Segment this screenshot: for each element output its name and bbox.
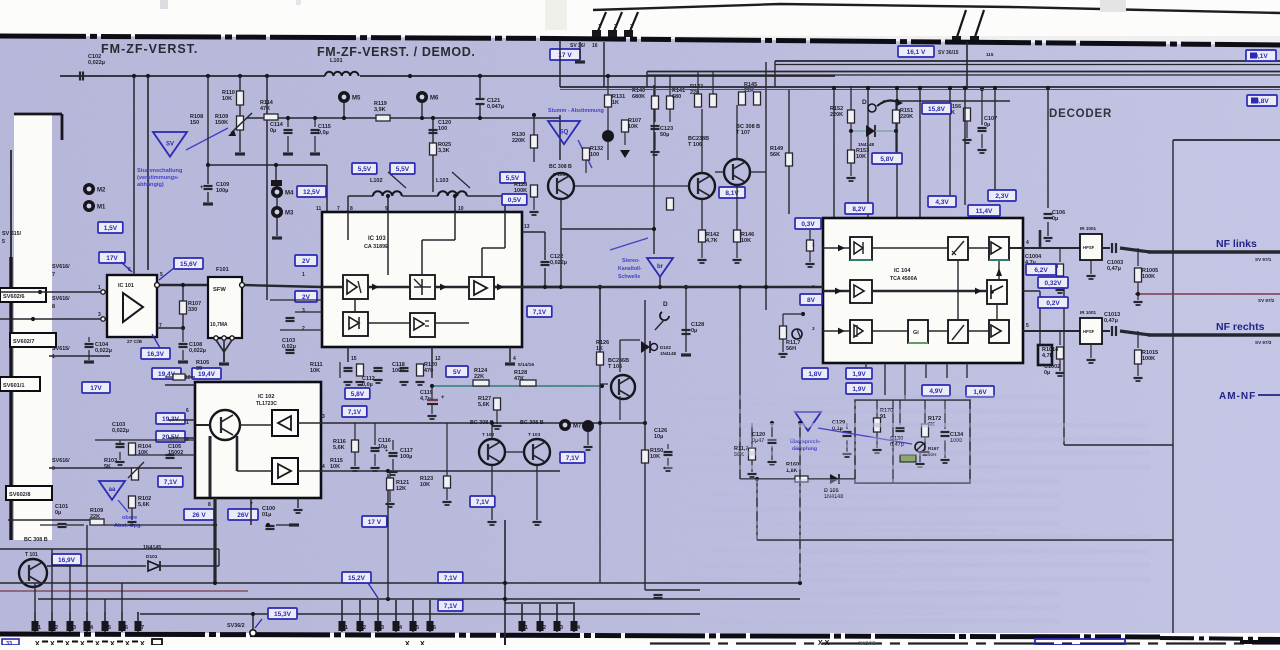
svg-text:220K: 220K — [900, 114, 913, 120]
svg-text:7: 7 — [141, 625, 144, 631]
svg-text:Stummschaltung: Stummschaltung — [137, 168, 183, 174]
svg-text:C120: C120 — [438, 120, 451, 126]
svg-text:15: 15 — [351, 356, 357, 362]
svg-text:R108: R108 — [190, 114, 203, 120]
svg-text:R146: R146 — [741, 232, 754, 238]
svg-text:1,9V: 1,9V — [852, 386, 866, 393]
svg-text:7,1V: 7,1V — [476, 499, 490, 506]
svg-text:0,022µ: 0,022µ — [95, 348, 112, 354]
svg-text:10K: 10K — [138, 450, 148, 456]
svg-text:R132: R132 — [590, 146, 603, 152]
svg-text:D102: D102 — [660, 345, 671, 350]
svg-text:7,1V: 7,1V — [348, 409, 362, 416]
svg-text:SV601/1: SV601/1 — [3, 383, 24, 389]
svg-text:2,3V: 2,3V — [995, 193, 1009, 200]
svg-text:01µ: 01µ — [262, 512, 271, 518]
svg-text:C116: C116 — [378, 438, 391, 444]
svg-text:1: 1 — [38, 625, 41, 631]
svg-text:D: D — [663, 301, 668, 308]
svg-text:(verstimmungs-: (verstimmungs- — [137, 175, 179, 181]
svg-text:26 V: 26 V — [192, 512, 206, 519]
svg-text:10: 10 — [185, 375, 191, 381]
svg-text:6: 6 — [186, 408, 189, 414]
svg-text:F101: F101 — [216, 267, 229, 273]
svg-text:HPSF: HPSF — [1083, 245, 1095, 250]
svg-text:IR 1001: IR 1001 — [1080, 310, 1097, 315]
svg-text:T 101: T 101 — [25, 552, 38, 558]
svg-text:R1015: R1015 — [1142, 350, 1158, 356]
svg-text:3: 3 — [322, 414, 325, 420]
svg-text:R120: R120 — [424, 362, 437, 368]
svg-text:X: X — [110, 641, 115, 645]
svg-text:4,9V: 4,9V — [929, 388, 943, 395]
svg-text:4,3V: 4,3V — [935, 199, 949, 206]
svg-text:X X: X X — [818, 640, 830, 645]
svg-text:M1: M1 — [97, 205, 106, 211]
svg-text:R172: R172 — [928, 416, 941, 422]
svg-text:13: 13 — [524, 224, 530, 230]
svg-text:1,8V: 1,8V — [808, 371, 822, 378]
svg-text:680K: 680K — [632, 94, 645, 100]
svg-text:5,8V: 5,8V — [880, 156, 894, 163]
svg-text:R128: R128 — [514, 370, 527, 376]
svg-text:C1003: C1003 — [1107, 260, 1123, 266]
svg-text:SV616/: SV616/ — [52, 296, 70, 302]
svg-text:C100: C100 — [262, 506, 275, 512]
svg-text:0µ: 0µ — [270, 128, 276, 134]
svg-text:C1013: C1013 — [1104, 312, 1120, 318]
svg-text:470: 470 — [424, 368, 433, 374]
svg-text:2: 2 — [812, 284, 815, 289]
svg-text:100K: 100K — [1142, 274, 1155, 280]
svg-text:M7: M7 — [573, 424, 582, 430]
svg-text:SV602/6: SV602/6 — [3, 294, 24, 300]
svg-text:T 104: T 104 — [553, 172, 566, 178]
svg-text:Gi: Gi — [913, 330, 919, 336]
svg-text:R119: R119 — [374, 101, 387, 107]
svg-text:4,7K: 4,7K — [1042, 353, 1054, 359]
svg-text:C103: C103 — [112, 422, 125, 428]
svg-text:C115: C115 — [318, 124, 331, 130]
svg-text:C106: C106 — [1052, 210, 1065, 216]
svg-text:11,4V: 11,4V — [976, 208, 993, 215]
svg-text:7,1V: 7,1V — [444, 603, 458, 610]
svg-text:R128: R128 — [514, 182, 527, 188]
svg-text:1: 1 — [598, 24, 601, 30]
svg-text:R150: R150 — [650, 448, 663, 454]
svg-text:16,3V: 16,3V — [147, 351, 165, 358]
svg-text:33: 33 — [6, 641, 12, 645]
svg-text:R116: R116 — [333, 439, 346, 445]
svg-text:10K: 10K — [628, 124, 638, 130]
svg-text:4: 4 — [1026, 240, 1029, 246]
svg-text:D: D — [862, 99, 867, 106]
svg-text:R126: R126 — [596, 340, 609, 346]
svg-text:0,32V: 0,32V — [1045, 280, 1063, 287]
svg-text:BC 308 B: BC 308 B — [736, 124, 760, 130]
svg-text:220K: 220K — [830, 112, 843, 118]
svg-text:56K: 56K — [770, 152, 780, 158]
svg-text:X: X — [420, 641, 425, 645]
svg-text:R1005: R1005 — [1142, 268, 1158, 274]
svg-text:BC238B: BC238B — [688, 136, 709, 142]
svg-text:R140: R140 — [632, 88, 645, 94]
svg-text:15002: 15002 — [168, 450, 183, 456]
svg-text:C128: C128 — [691, 322, 704, 328]
svg-text:1: 1 — [186, 420, 189, 426]
svg-text:5/14/16: 5/14/16 — [518, 362, 534, 368]
svg-text:R127: R127 — [478, 396, 491, 402]
svg-text:0,0µ: 0,0µ — [318, 130, 329, 136]
svg-text:R105: R105 — [196, 360, 209, 366]
svg-text:5,5V: 5,5V — [396, 166, 410, 173]
svg-text:T 107: T 107 — [736, 130, 750, 136]
svg-text:C119: C119 — [420, 390, 433, 396]
svg-text:100K: 100K — [1142, 356, 1155, 362]
svg-text:0µ: 0µ — [691, 328, 697, 334]
svg-text:+: + — [200, 185, 204, 191]
svg-text:+: + — [441, 395, 445, 401]
svg-text:C121: C121 — [487, 98, 500, 104]
svg-text:L103: L103 — [436, 178, 449, 184]
svg-text:R109: R109 — [215, 114, 228, 120]
svg-text:SV616/: SV616/ — [52, 458, 70, 464]
svg-text:5: 5 — [2, 239, 5, 245]
svg-text:19,4V: 19,4V — [198, 371, 216, 378]
svg-text:10K: 10K — [330, 464, 340, 470]
svg-text:T 102: T 102 — [482, 432, 495, 438]
svg-text:C117: C117 — [400, 448, 413, 454]
svg-text:+: + — [385, 448, 388, 454]
svg-text:3: 3 — [381, 625, 384, 631]
svg-text:obere: obere — [122, 515, 137, 521]
svg-text:15,3V: 15,3V — [274, 611, 292, 618]
svg-text:T 103: T 103 — [528, 432, 541, 438]
svg-text:3: 3 — [630, 24, 633, 30]
svg-text:C114: C114 — [270, 122, 284, 128]
svg-text:M5: M5 — [352, 96, 361, 102]
svg-text:10K: 10K — [650, 454, 660, 460]
svg-text:0,47µ: 0,47µ — [1107, 266, 1121, 272]
svg-text:10µ: 10µ — [654, 434, 663, 440]
svg-text:39: 39 — [196, 366, 202, 372]
svg-text:R121: R121 — [396, 480, 409, 486]
svg-text:0,022µ: 0,022µ — [88, 60, 105, 66]
svg-text:50µ: 50µ — [660, 132, 669, 138]
svg-text:R1014: R1014 — [1042, 347, 1059, 353]
svg-text:5V: 5V — [453, 369, 462, 376]
svg-text:6,2V: 6,2V — [1034, 267, 1048, 274]
svg-text:1: 1 — [52, 354, 55, 360]
svg-text:0,02µ: 0,02µ — [282, 344, 296, 350]
svg-text:C101: C101 — [55, 504, 68, 510]
svg-text:10K: 10K — [222, 96, 232, 102]
svg-text:R153: R153 — [856, 148, 869, 154]
svg-text:5: 5 — [416, 625, 419, 631]
svg-text:C104: C104 — [95, 342, 109, 348]
svg-text:X: X — [65, 641, 70, 645]
svg-text:SV615/: SV615/ — [52, 346, 70, 352]
svg-text:M6: M6 — [430, 96, 439, 102]
svg-text:2: 2 — [302, 326, 305, 332]
svg-text:0,022µ: 0,022µ — [112, 428, 129, 434]
svg-text:Abst.-Spg.: Abst.-Spg. — [114, 523, 142, 529]
svg-text:115: 115 — [986, 52, 994, 57]
svg-text:SV 97/1: SV 97/1 — [1255, 257, 1272, 262]
svg-text:C1004: C1004 — [1025, 254, 1042, 260]
svg-text:0,3V: 0,3V — [801, 221, 815, 228]
svg-text:R167: R167 — [928, 446, 939, 451]
svg-text:100: 100 — [590, 152, 599, 158]
svg-text:3,9K: 3,9K — [374, 107, 386, 113]
svg-text:0,5V: 0,5V — [508, 197, 522, 204]
svg-text:15,6V: 15,6V — [180, 261, 198, 268]
svg-text:3: 3 — [73, 625, 76, 631]
svg-text:X: X — [405, 641, 410, 645]
svg-text:2V: 2V — [302, 258, 311, 265]
svg-text:0µ: 0µ — [1052, 216, 1058, 222]
svg-text:150: 150 — [190, 120, 199, 126]
svg-text:R109: R109 — [90, 508, 103, 514]
svg-text:10K: 10K — [420, 482, 430, 488]
svg-text:17 V: 17 V — [368, 519, 382, 526]
svg-text:DECODER: DECODER — [1049, 108, 1112, 120]
svg-text:R103: R103 — [104, 458, 117, 464]
svg-text:1: 1 — [812, 242, 815, 247]
svg-text:HPSF: HPSF — [1083, 329, 1095, 334]
svg-text:зидов: зидов — [858, 641, 876, 645]
svg-text:R141: R141 — [672, 88, 685, 94]
svg-text:1: 1 — [345, 625, 348, 631]
svg-text:IR 1001: IR 1001 — [1080, 226, 1097, 231]
svg-text:6: 6 — [125, 625, 128, 631]
svg-text:CA 3189E: CA 3189E — [364, 244, 389, 250]
svg-text:X: X — [95, 641, 100, 645]
svg-text:C103: C103 — [282, 338, 295, 344]
svg-text:C105: C105 — [168, 444, 181, 450]
svg-text:1N4148: 1N4148 — [660, 351, 677, 356]
svg-text:47K: 47K — [514, 376, 524, 382]
svg-text:4: 4 — [513, 356, 516, 362]
svg-text:1: 1 — [302, 272, 305, 278]
svg-text:100K: 100K — [514, 188, 527, 194]
svg-text:R025: R025 — [438, 142, 451, 148]
svg-text:100: 100 — [438, 126, 447, 132]
svg-text:NF rechts: NF rechts — [1216, 321, 1265, 333]
svg-text:R107: R107 — [188, 301, 201, 307]
svg-text:Stumm - Abstimmung: Stumm - Abstimmung — [548, 108, 604, 114]
svg-text:X: X — [80, 641, 85, 645]
svg-text:SV 36/15: SV 36/15 — [938, 50, 959, 56]
svg-text:17V: 17V — [90, 385, 102, 392]
svg-text:17V: 17V — [106, 255, 118, 262]
svg-text:SFW: SFW — [213, 287, 226, 293]
svg-text:C102: C102 — [88, 54, 101, 60]
svg-text:1K: 1K — [612, 100, 619, 106]
svg-text:R110: R110 — [222, 90, 235, 96]
svg-text:26V: 26V — [237, 512, 249, 519]
svg-text:BC 308 B: BC 308 B — [549, 164, 572, 170]
svg-text:9: 9 — [52, 466, 55, 472]
svg-text:3,3K: 3,3K — [438, 148, 450, 154]
svg-text:C109: C109 — [216, 182, 229, 188]
svg-text:SV602/8: SV602/8 — [9, 492, 30, 498]
svg-text:10K: 10K — [741, 238, 751, 244]
svg-text:27 C/B: 27 C/B — [127, 339, 142, 345]
svg-text:100µ: 100µ — [400, 454, 412, 460]
svg-text:22K: 22K — [474, 374, 484, 380]
svg-text:X: X — [125, 641, 130, 645]
svg-text:SV 36/: SV 36/ — [570, 43, 586, 49]
svg-text:SV: SV — [166, 141, 174, 147]
svg-text:5,6K: 5,6K — [138, 502, 150, 508]
svg-text:Schwelle: Schwelle — [618, 274, 640, 280]
svg-text:150K: 150K — [215, 120, 228, 126]
svg-text:4: 4 — [322, 464, 325, 470]
svg-text:2: 2 — [543, 625, 546, 631]
svg-text:SV 615/: SV 615/ — [2, 231, 22, 237]
svg-text:10,7MA: 10,7MA — [210, 322, 228, 328]
svg-text:22K: 22K — [90, 514, 100, 520]
svg-text:R114: R114 — [260, 100, 274, 106]
svg-text:R131: R131 — [612, 94, 625, 100]
svg-text:0,47µ: 0,47µ — [1104, 318, 1118, 324]
svg-text:3: 3 — [560, 625, 563, 631]
svg-text:X: X — [35, 641, 40, 645]
svg-text:abhängig): abhängig) — [137, 182, 164, 188]
svg-text:220K: 220K — [512, 138, 525, 144]
svg-text:0,2V: 0,2V — [1046, 300, 1060, 307]
svg-text:M2: M2 — [97, 188, 106, 194]
svg-text:7,1V: 7,1V — [533, 309, 547, 316]
svg-text:7,1V: 7,1V — [566, 455, 580, 462]
svg-text:0µ: 0µ — [55, 510, 61, 516]
svg-text:NF links: NF links — [1216, 238, 1257, 250]
svg-text:8: 8 — [208, 502, 211, 508]
svg-text:5,8V: 5,8V — [351, 391, 365, 398]
svg-text:0,022µ: 0,022µ — [189, 348, 206, 354]
svg-text:2: 2 — [614, 24, 617, 30]
svg-text:C108: C108 — [189, 342, 202, 348]
svg-text:10K: 10K — [856, 154, 866, 160]
svg-text:16,1 V: 16,1 V — [907, 49, 926, 56]
svg-text:6: 6 — [433, 625, 436, 631]
svg-text:M4: M4 — [285, 191, 294, 197]
svg-text:M3: M3 — [285, 211, 294, 217]
svg-text:C126: C126 — [654, 428, 667, 434]
svg-text:5,6K: 5,6K — [333, 445, 345, 451]
svg-text:R123: R123 — [420, 476, 433, 482]
svg-text:D101: D101 — [146, 554, 158, 560]
svg-text:TCA 4500A: TCA 4500A — [890, 276, 917, 282]
svg-text:0,022µ: 0,022µ — [550, 260, 567, 266]
svg-text:BC 308 B: BC 308 B — [520, 420, 544, 426]
svg-text:16,9V: 16,9V — [58, 557, 76, 564]
svg-text:SV602/7: SV602/7 — [13, 339, 34, 345]
svg-text:R151: R151 — [900, 108, 913, 114]
svg-text:T 106: T 106 — [688, 142, 702, 148]
svg-text:C123: C123 — [660, 126, 673, 132]
svg-text:1,5V: 1,5V — [104, 225, 118, 232]
svg-text:1N4148: 1N4148 — [858, 142, 875, 147]
svg-text:15,8V: 15,8V — [928, 106, 946, 113]
svg-text:330: 330 — [188, 307, 197, 313]
svg-text:8V: 8V — [807, 297, 816, 304]
svg-text:IC 101: IC 101 — [118, 283, 134, 289]
svg-text:BC236B: BC236B — [608, 358, 629, 364]
svg-text:1: 1 — [98, 285, 101, 291]
svg-text:5,5V: 5,5V — [358, 166, 372, 173]
svg-text:AM-NF: AM-NF — [1219, 391, 1256, 402]
svg-text:X: X — [50, 641, 55, 645]
svg-text:1: 1 — [525, 625, 528, 631]
svg-text:0µ: 0µ — [1044, 370, 1050, 376]
svg-text:680: 680 — [672, 94, 681, 100]
svg-text:R149: R149 — [770, 146, 783, 152]
svg-text:FM-ZF-VERST.: FM-ZF-VERST. — [101, 42, 198, 56]
svg-text:8,2V: 8,2V — [852, 206, 866, 213]
svg-text:15,2V: 15,2V — [348, 575, 366, 582]
svg-text:FM-ZF-VERST. / DEMOD.: FM-ZF-VERST. / DEMOD. — [317, 45, 475, 59]
svg-text:R111: R111 — [310, 362, 323, 368]
svg-text:TL1723C: TL1723C — [256, 401, 277, 407]
svg-text:16: 16 — [592, 43, 598, 49]
svg-text:10K: 10K — [310, 368, 320, 374]
svg-text:R142: R142 — [706, 232, 719, 238]
svg-text:IC 103: IC 103 — [368, 236, 386, 242]
svg-text:BC 308 B: BC 308 B — [24, 537, 48, 543]
svg-text:SV616/: SV616/ — [52, 264, 70, 270]
svg-text:5: 5 — [108, 625, 111, 631]
svg-text:91: 91 — [880, 414, 886, 420]
svg-text:C1002: C1002 — [1044, 364, 1060, 370]
svg-text:R11,7: R11,7 — [786, 340, 800, 346]
svg-text:100µ: 100µ — [216, 188, 228, 194]
svg-text:1N4145: 1N4145 — [143, 545, 161, 551]
svg-text:R104: R104 — [138, 444, 152, 450]
svg-text:Stereo-: Stereo- — [622, 258, 640, 264]
svg-text:R124: R124 — [474, 368, 488, 374]
svg-text:SV36/2: SV36/2 — [227, 623, 245, 629]
svg-text:aa: aa — [109, 487, 116, 493]
svg-text:4,7K: 4,7K — [706, 238, 718, 244]
svg-text:3: 3 — [98, 312, 101, 318]
svg-text:7: 7 — [52, 272, 55, 278]
svg-text:220: 220 — [690, 90, 699, 96]
svg-text:1,9V: 1,9V — [852, 371, 866, 378]
svg-text:SV 97/3: SV 97/3 — [1255, 340, 1272, 345]
svg-text:0µ: 0µ — [984, 122, 990, 128]
svg-text:3: 3 — [302, 308, 305, 314]
svg-text:IC 102: IC 102 — [258, 394, 274, 400]
svg-text:SV 97/2: SV 97/2 — [1258, 298, 1275, 303]
svg-text:12,5V: 12,5V — [303, 189, 321, 196]
svg-text:L102: L102 — [370, 178, 383, 184]
svg-text:SQ: SQ — [560, 129, 569, 135]
svg-text:56H: 56H — [786, 346, 796, 352]
svg-text:3: 3 — [812, 326, 815, 331]
svg-text:R130: R130 — [512, 132, 525, 138]
svg-text:0,047µ: 0,047µ — [487, 104, 504, 110]
svg-text:R102: R102 — [138, 496, 151, 502]
svg-text:12K: 12K — [396, 486, 406, 492]
svg-text:7,1V: 7,1V — [164, 479, 178, 486]
svg-text:X: X — [140, 641, 145, 645]
svg-text:5,6K: 5,6K — [478, 402, 490, 408]
svg-text:47K: 47K — [260, 106, 270, 112]
svg-text:R115: R115 — [330, 458, 343, 464]
svg-text:5: 5 — [1026, 323, 1029, 329]
